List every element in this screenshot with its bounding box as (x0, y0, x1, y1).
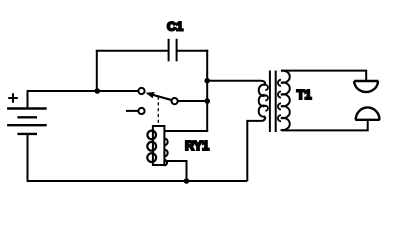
junction node C (204, 98, 210, 104)
wire switch blade to node (178, 100, 208, 102)
svg-text:T1: T1 (297, 88, 312, 102)
switch blade with arrow (146, 92, 178, 104)
transformer core (269, 71, 271, 133)
wire vertical node column (206, 50, 208, 131)
transformer T1 primary winding (259, 85, 266, 117)
wire top rail left of C1 (96, 50, 168, 52)
transformer T1 secondary winding (281, 71, 290, 130)
spark gap electrode top (354, 81, 378, 92)
wire C1 left branch vertical (96, 51, 98, 91)
switch contact upper (138, 88, 144, 94)
junction node B (204, 78, 210, 84)
dashed mechanical link (157, 97, 159, 127)
wire relay coil bottom to rail (164, 161, 186, 181)
wire bottom rail (27, 180, 248, 182)
wire battery bottom lead (27, 134, 29, 181)
wire primary top (207, 81, 265, 85)
wire battery top to switch contact (28, 91, 139, 109)
wire secondary top to gap (281, 71, 366, 80)
capacitor C1 (169, 39, 177, 62)
switch contact lower stub (126, 110, 138, 112)
relay coil RY1 (147, 126, 167, 165)
svg-text:RY1: RY1 (185, 139, 209, 153)
wire primary bottom (247, 117, 265, 181)
spark gap electrode bottom (355, 107, 379, 119)
junction node D (184, 178, 190, 184)
svg-text:C1: C1 (167, 20, 183, 34)
wire top rail right of C1 (178, 50, 209, 52)
wire secondary bottom to gap (281, 121, 368, 131)
junction node A (95, 88, 101, 94)
battery B1 (7, 93, 47, 134)
wire relay coil top (164, 130, 208, 132)
